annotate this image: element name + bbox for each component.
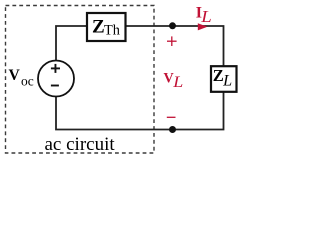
- svg-text:L: L: [200, 7, 212, 26]
- svg-text:L: L: [222, 73, 232, 90]
- svg-text:Z: Z: [92, 16, 105, 37]
- svg-text:V: V: [164, 70, 174, 86]
- svg-text:Th: Th: [104, 23, 120, 39]
- svg-text:L: L: [172, 74, 183, 91]
- svg-text:Z: Z: [213, 66, 224, 85]
- svg-text:V: V: [9, 67, 21, 84]
- svg-text:oc: oc: [21, 74, 34, 89]
- svg-text:ac circuit: ac circuit: [45, 134, 116, 155]
